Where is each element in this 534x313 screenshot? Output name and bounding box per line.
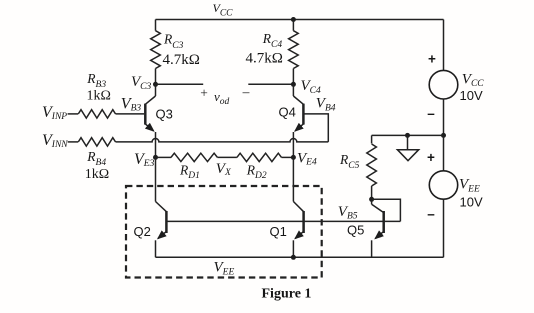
resistor RB3 1k <box>78 110 115 118</box>
resistor RB4 1k <box>78 138 115 146</box>
resistor RC3 4.7k <box>155 20 157 31</box>
wire bottom VEE rail <box>156 256 444 258</box>
svg-text:Q1: Q1 <box>270 224 287 239</box>
svg-text:+: + <box>427 150 435 165</box>
node VE4 <box>291 155 296 160</box>
wire Q4 emitter to VE4 <box>292 132 294 157</box>
wire vod right terminal <box>248 83 293 85</box>
svg-text:VCC: VCC <box>213 1 234 18</box>
wire VE4 to Q1 collector <box>292 157 294 201</box>
wire top VCC rail <box>156 19 444 21</box>
svg-text:RC3: RC3 <box>163 32 184 52</box>
svg-text:VB5: VB5 <box>338 204 358 222</box>
svg-text:Q3: Q3 <box>156 107 173 122</box>
wire node VX <box>217 156 237 158</box>
source VCC 10V <box>429 70 458 99</box>
wire RD2 to VE4 <box>282 156 294 158</box>
svg-text:10V: 10V <box>460 88 483 103</box>
wire VCC source to ground junction <box>443 99 445 135</box>
wire VINP lead <box>68 113 79 115</box>
source VEE 10V <box>429 171 457 199</box>
svg-text:RC5: RC5 <box>339 152 360 171</box>
svg-text:VINN: VINN <box>42 132 68 150</box>
node VE3 <box>153 155 158 160</box>
wire VE3 to RD1 <box>156 156 172 158</box>
wire VINN to VB4 with crossover hops <box>116 139 329 142</box>
svg-text:Figure 1: Figure 1 <box>262 286 312 301</box>
svg-text:VC4: VC4 <box>301 78 322 96</box>
svg-text:1kΩ: 1kΩ <box>85 167 109 182</box>
wire VINN lead <box>68 141 79 143</box>
wire Q4 collector <box>292 84 294 96</box>
wire Q2 emitter <box>155 240 157 257</box>
svg-text:Q5: Q5 <box>347 222 364 237</box>
node Q1 emitter rail junction <box>291 255 296 260</box>
svg-text:VB3: VB3 <box>121 95 142 113</box>
svg-text:+: + <box>428 52 436 67</box>
svg-text:–: – <box>242 84 250 99</box>
svg-text:10V: 10V <box>460 195 483 210</box>
svg-text:VE3: VE3 <box>134 151 155 169</box>
wire Q3 collector <box>155 84 157 96</box>
wire Q5 collector-base loop <box>372 199 401 221</box>
wire Q1 emitter <box>292 240 294 257</box>
svg-text:1kΩ: 1kΩ <box>87 89 111 104</box>
svg-text:4.7kΩ: 4.7kΩ <box>163 52 200 68</box>
svg-text:VC3: VC3 <box>131 74 152 92</box>
wire junction to VEE source <box>443 135 445 171</box>
transistor Q5 <box>382 211 385 233</box>
node ground junction <box>405 133 410 138</box>
resistor RD2 <box>237 153 282 161</box>
node VC3 <box>153 82 158 87</box>
transistor Q1 <box>302 211 305 233</box>
svg-text:RC4: RC4 <box>262 31 283 50</box>
wire Q3 emitter to VE3 <box>155 132 157 157</box>
wire VEE source to bottom rail <box>443 199 445 257</box>
svg-text:Q2: Q2 <box>134 224 151 239</box>
svg-text:vod: vod <box>214 89 230 107</box>
wire Q5 emitter <box>371 240 373 257</box>
svg-text:VEE: VEE <box>459 177 480 195</box>
wire VCC rail to VCC source <box>443 20 445 71</box>
wire VB4 loop <box>303 114 328 142</box>
svg-text:Q4: Q4 <box>279 104 296 119</box>
svg-text:–: – <box>427 106 435 121</box>
svg-text:RD1: RD1 <box>179 162 200 181</box>
resistor RC5 <box>371 135 373 143</box>
wire vod left terminal <box>156 83 204 85</box>
ground <box>407 135 409 149</box>
svg-text:4.7kΩ: 4.7kΩ <box>246 50 283 66</box>
svg-text:VE4: VE4 <box>297 150 317 167</box>
node junction sources <box>441 133 446 138</box>
svg-text:VCC: VCC <box>462 71 485 89</box>
svg-text:RB4: RB4 <box>86 149 106 168</box>
svg-text:VB4: VB4 <box>316 96 336 114</box>
svg-text:VEE: VEE <box>214 260 235 278</box>
svg-text:RB3: RB3 <box>86 71 106 90</box>
svg-text:–: – <box>427 207 435 222</box>
wire VE3 to Q2 collector <box>155 157 157 201</box>
transistor Q3 <box>144 104 147 125</box>
svg-text:+: + <box>200 86 208 101</box>
svg-text:VX: VX <box>216 161 232 178</box>
node VC4 <box>291 82 296 87</box>
svg-text:RD2: RD2 <box>246 162 267 181</box>
dashed current-mirror box <box>126 186 322 278</box>
node Q5 collector junction <box>369 197 374 202</box>
wire base row VB5 net <box>166 220 400 222</box>
transistor Q2 <box>165 211 168 233</box>
transistor Q4 <box>302 104 305 125</box>
resistor RD1 <box>171 153 217 161</box>
svg-text:VINP: VINP <box>42 104 67 122</box>
resistor RC4 4.7k <box>291 17 296 22</box>
wire RB3 to Q3 base <box>116 113 145 115</box>
wire ground row <box>372 134 444 136</box>
